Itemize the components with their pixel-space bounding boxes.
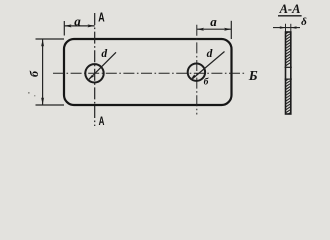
svg-text:d: d <box>207 48 213 60</box>
svg-text:a: a <box>74 14 81 29</box>
svg-text:А-А: А-А <box>279 2 301 16</box>
svg-text:A: A <box>98 9 105 24</box>
svg-text:б: б <box>27 70 41 77</box>
svg-text:Б: Б <box>248 69 258 84</box>
svg-text:δ: δ <box>301 16 307 28</box>
svg-text:a: a <box>210 14 217 29</box>
svg-text:d: d <box>101 48 107 60</box>
svg-text:A: A <box>99 114 105 128</box>
